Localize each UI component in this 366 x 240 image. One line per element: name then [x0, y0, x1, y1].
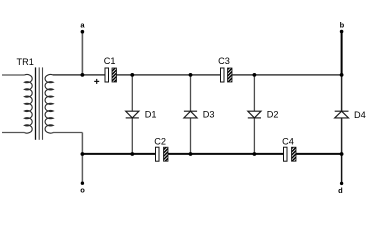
- wire bottom rail segment 3 (C4 to d): [296, 153, 342, 155]
- junction node D3 bottom: [189, 152, 193, 156]
- junction node o-rail: [81, 152, 85, 156]
- svg-text:D4: D4: [354, 110, 366, 120]
- terminal a dot: [81, 30, 85, 34]
- wire stub to terminal d: [341, 154, 343, 183]
- diode D4 (pointing up): [335, 111, 349, 118]
- wire stub o (secondary down to terminal o): [81, 133, 83, 184]
- terminal d dot: [340, 182, 343, 185]
- svg-text:D1: D1: [145, 110, 157, 120]
- junction node D2 top: [253, 73, 257, 77]
- svg-text:C1: C1: [104, 56, 116, 66]
- diode D3 (pointing up): [184, 111, 197, 118]
- svg-text:C3: C3: [218, 56, 230, 66]
- svg-text:C4: C4: [282, 136, 294, 146]
- diode D2 wires: [253, 75, 255, 111]
- junction node a-rail: [81, 73, 85, 77]
- diode D4 vertical wire (b rail to diode): [341, 75, 343, 111]
- capacitor C1: [104, 56, 117, 82]
- transformer TR1: [2, 67, 53, 139]
- diode D1 wires: [131, 75, 133, 111]
- capacitor C3: [218, 56, 232, 82]
- svg-text:b: b: [340, 20, 345, 29]
- junction node D1 top: [130, 73, 134, 77]
- svg-text:C2: C2: [154, 137, 166, 147]
- secondary winding: [45, 75, 53, 134]
- diode D3 wires: [190, 75, 192, 111]
- junction node d-rail: [340, 152, 344, 156]
- junction node b-rail: [340, 73, 344, 77]
- wire stub to terminal a: [81, 32, 83, 75]
- wire top rail middle segment (C1 to C3): [117, 74, 221, 76]
- svg-text:o: o: [80, 185, 85, 194]
- svg-text:d: d: [338, 186, 343, 195]
- wire secondary top lead / top rail left segment: [53, 74, 105, 76]
- junction node D1 bottom: [130, 152, 134, 156]
- plus sign of C1: [94, 79, 99, 84]
- svg-text:TR1: TR1: [17, 57, 34, 67]
- core line 3: [42, 67, 44, 139]
- capacitor C2: [154, 137, 168, 162]
- wire secondary bottom lead: [53, 132, 82, 134]
- capacitor C4: [282, 136, 296, 161]
- wire stub to terminal b: [341, 32, 343, 75]
- core line 2: [38, 67, 40, 139]
- terminal b dot: [340, 30, 344, 34]
- core line 1: [35, 67, 37, 139]
- terminal o dot: [81, 182, 84, 185]
- wire bottom rail segment 1: [82, 153, 155, 155]
- svg-text:D2: D2: [267, 110, 279, 120]
- svg-text:D3: D3: [203, 110, 215, 120]
- junction node D2 bottom: [253, 152, 257, 156]
- wire primary top lead: [2, 74, 25, 76]
- primary winding: [25, 75, 33, 134]
- diode D2 (pointing down): [248, 111, 261, 118]
- diode D1 (pointing down): [126, 111, 139, 118]
- wire primary bottom lead: [2, 132, 25, 134]
- junction node D3 top: [189, 73, 193, 77]
- wire bottom rail segment 2 (C2 to C4): [168, 153, 284, 155]
- wire top rail right segment (C3 to b): [232, 74, 342, 76]
